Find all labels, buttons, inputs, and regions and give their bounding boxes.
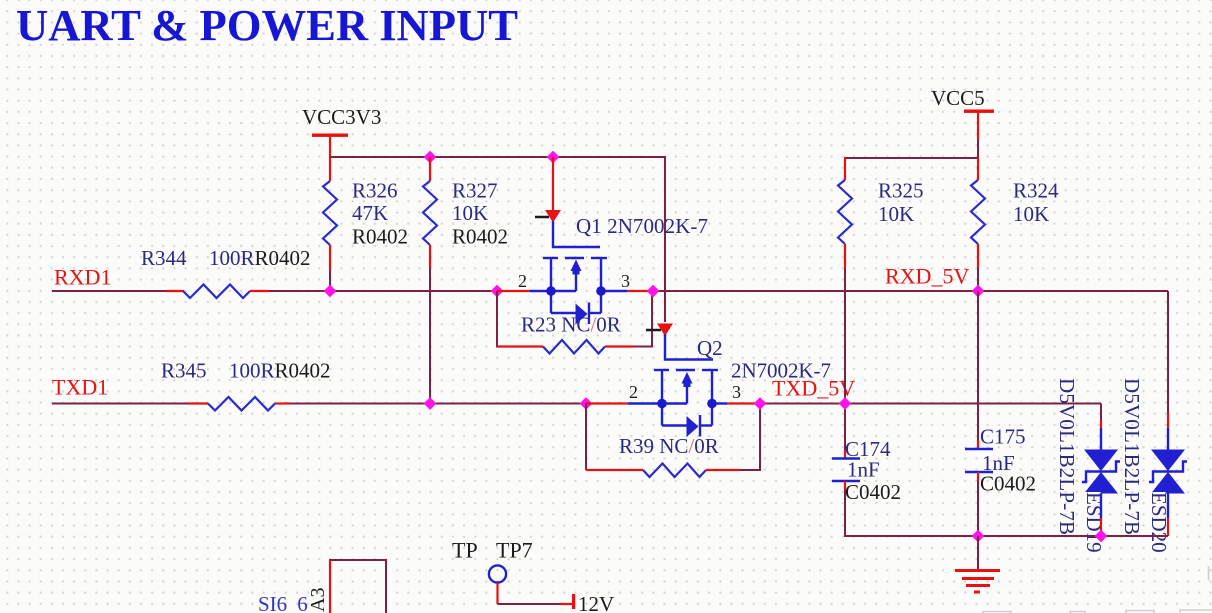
svg-text:R325: R325 [878, 179, 924, 203]
svg-text:A3: A3 [307, 588, 329, 612]
svg-text:3: 3 [621, 271, 630, 291]
svg-text:Q2: Q2 [697, 336, 723, 360]
resistor R345 [161, 359, 331, 411]
svg-text:R0402: R0402 [452, 225, 508, 249]
label ESD19 [1082, 492, 1106, 553]
resistor R326 [323, 157, 408, 291]
node junction RXD5V-R324 [972, 285, 985, 298]
svg-text:R344: R344 [141, 246, 187, 270]
wire D520 leads [1167, 291, 1169, 536]
svg-text:3: 3 [732, 382, 741, 402]
svg-text:RXD1: RXD1 [54, 265, 111, 290]
svg-text:D5V0L1B2LP-7B: D5V0L1B2LP-7B [1120, 378, 1144, 535]
wire RXD1 [52, 290, 166, 292]
svg-text:TP7: TP7 [496, 538, 533, 563]
transistor Q1 [497, 157, 651, 325]
resistor R324 [971, 158, 1059, 291]
pin label A3 [307, 588, 329, 612]
svg-text:12V: 12V [578, 592, 614, 613]
svg-text:R39 NC/0R: R39 NC/0R [619, 434, 719, 458]
wire R325 to TXD_5V [844, 268, 846, 404]
svg-text:R23 NC/0R: R23 NC/0R [521, 313, 621, 337]
svg-text:C0402: C0402 [845, 480, 901, 504]
wire RXD1 to Q1 [269, 290, 497, 292]
svg-text:TP: TP [452, 538, 478, 563]
svg-text:C0402: C0402 [980, 472, 1036, 496]
resistor R39 loop [586, 404, 760, 478]
svg-text:VCC5: VCC5 [931, 86, 985, 110]
capacitor C174 [832, 404, 901, 505]
svg-text:100RR0402: 100RR0402 [209, 246, 311, 270]
diode D520 (TVS) [1149, 450, 1187, 494]
wire VCC3V3 top rail [330, 157, 665, 322]
svg-text:D5V0L1B2LP-7B: D5V0L1B2LP-7B [1055, 378, 1079, 535]
svg-text:C175: C175 [980, 425, 1026, 449]
svg-text:R0402: R0402 [352, 225, 408, 249]
wire TXD1 [52, 403, 187, 405]
connector SI6 box [330, 560, 386, 613]
svg-text:UART & POWER INPUT: UART & POWER INPUT [16, 1, 518, 50]
node junction RXD1-R326 [324, 285, 337, 298]
node junction TXD1-Q2 pin2 [580, 397, 593, 410]
svg-text:47K: 47K [352, 201, 388, 225]
svg-text:SI66: SI66 [258, 592, 308, 613]
svg-text:10K: 10K [452, 201, 488, 225]
decorative faint marks bottom edge [983, 566, 1212, 613]
svg-text:TXD1: TXD1 [52, 375, 108, 400]
power port VCC3V3 [302, 105, 381, 157]
svg-text:100RR0402: 100RR0402 [229, 359, 331, 383]
resistor R23 loop [497, 291, 652, 354]
svg-text:Q1 2N7002K-7: Q1 2N7002K-7 [576, 214, 708, 238]
diode D519 (TVS) [1082, 450, 1120, 494]
wire TP7 to 12V [498, 603, 561, 605]
svg-text:R324: R324 [1013, 179, 1059, 203]
power port VCC5 [931, 86, 994, 158]
svg-text:ESD19: ESD19 [1082, 492, 1106, 553]
svg-text:1nF: 1nF [847, 458, 880, 482]
svg-text:2: 2 [629, 382, 638, 402]
node junction TXD5V-C174 [839, 397, 852, 410]
wire R327 to TXD1 line [429, 268, 431, 404]
node junction TXD5V-Q2 pin3 [754, 397, 767, 410]
wire TXD_5V [760, 403, 1101, 405]
resistor R325 [838, 179, 924, 269]
node junction rail-D519 [1095, 530, 1108, 543]
svg-text:RXD_5V: RXD_5V [885, 264, 969, 289]
power port 12V [572, 592, 614, 613]
node junction rail-R327 [424, 151, 437, 164]
transistor Q2 [586, 324, 760, 438]
svg-text:VCC3V3: VCC3V3 [302, 105, 381, 129]
label D519 part number [1055, 378, 1079, 535]
node junction TXD1-R327 [424, 397, 437, 410]
wire RXD_5V [653, 290, 1168, 292]
svg-text:10K: 10K [1013, 202, 1049, 226]
wire VCC5 rail [845, 157, 978, 159]
ground [955, 536, 1000, 592]
test point TP7 [452, 538, 533, 605]
node junction rail-Q1gate [547, 151, 560, 164]
resistor R344 [141, 246, 311, 298]
svg-text:R327: R327 [452, 179, 498, 203]
svg-text:R326: R326 [352, 179, 398, 203]
node junction rail-C175-ground [972, 530, 985, 543]
resistor R327 [423, 157, 508, 268]
svg-text:TXD_5V: TXD_5V [772, 376, 855, 401]
node junction RXD1-Q1 pin2 [491, 285, 504, 298]
label D520 part number [1120, 378, 1144, 535]
svg-text:R345: R345 [161, 359, 207, 383]
svg-text:10K: 10K [878, 202, 914, 226]
wire TXD1 to Q2 [290, 403, 586, 405]
wire C174 to ground rail [845, 490, 1168, 536]
svg-text:2: 2 [518, 271, 527, 291]
node junction RXD5V-Q1 pin3 [647, 285, 660, 298]
wire D519 leads [1100, 404, 1102, 537]
label ESD20 [1147, 492, 1171, 553]
wire ground rail right segment [1040, 535, 1168, 537]
capacitor C175 [965, 291, 1036, 536]
